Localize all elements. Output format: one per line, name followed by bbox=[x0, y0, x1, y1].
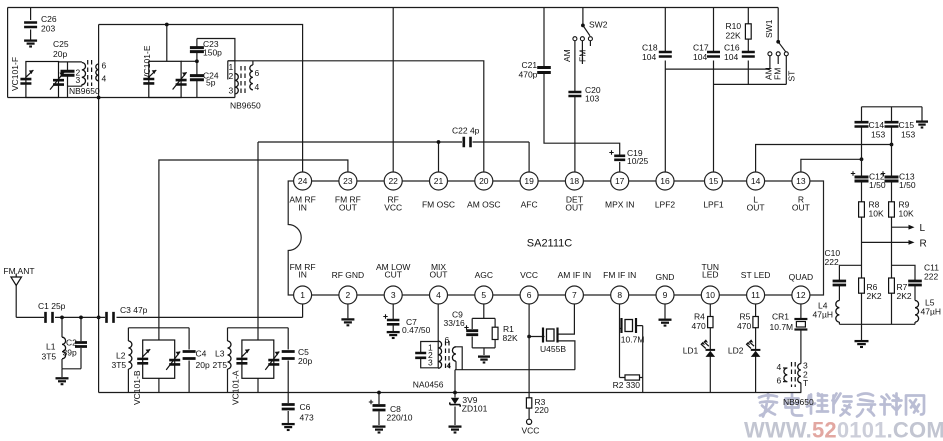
wire C9/R1 loop bbox=[472, 318, 495, 355]
resistor R2 bbox=[625, 375, 640, 380]
svg-text:L: L bbox=[920, 223, 926, 234]
svg-text:VC101-B: VC101-B bbox=[132, 370, 142, 405]
svg-text:WWW.520101.COM: WWW.520101.COM bbox=[744, 418, 943, 441]
svg-text:470: 470 bbox=[737, 321, 751, 331]
wire pin9 ground stub bbox=[664, 304, 666, 319]
capacitor C24 bbox=[190, 76, 204, 80]
wire tank2 top edge bbox=[228, 327, 289, 329]
wire tank1 left branch (L2) bbox=[127, 328, 129, 393]
pin 4 circle bbox=[430, 286, 448, 304]
ground below ZD101 bbox=[449, 427, 462, 433]
svg-text:OUT: OUT bbox=[339, 203, 357, 213]
wire C11/L5 branch bbox=[892, 265, 916, 324]
resistor R9 bbox=[889, 202, 895, 217]
pin 18 circle bbox=[565, 172, 583, 190]
ground below C6 bbox=[282, 424, 295, 430]
variable capacitor VC101-F box bbox=[26, 62, 59, 98]
svg-text:33/16: 33/16 bbox=[444, 318, 466, 328]
svg-text:18: 18 bbox=[570, 176, 580, 186]
svg-text:8: 8 bbox=[617, 290, 622, 300]
svg-text:C18: C18 bbox=[642, 43, 658, 53]
wire tank2 left branch (L3) bbox=[227, 328, 229, 393]
wire SW2 third contact stub bbox=[589, 41, 591, 46]
svg-text:6: 6 bbox=[527, 290, 532, 300]
wire SW2 FM stub bbox=[581, 41, 583, 64]
svg-text:17: 17 bbox=[615, 176, 625, 186]
svg-text:SA2111C: SA2111C bbox=[527, 238, 573, 250]
svg-text:LD1: LD1 bbox=[683, 346, 699, 356]
svg-text:6: 6 bbox=[445, 335, 450, 345]
svg-text:10.7M: 10.7M bbox=[621, 335, 645, 345]
pin 23 circle bbox=[339, 172, 357, 190]
capacitor C19 electrolytic bbox=[614, 156, 625, 160]
wire pin11 R5/LD2 branch bbox=[755, 304, 757, 393]
wire pin16 vertical with C18 bbox=[664, 8, 666, 173]
LED LD1 bbox=[706, 349, 716, 351]
svg-text:AM: AM bbox=[562, 49, 572, 62]
svg-text:LPF2: LPF2 bbox=[655, 200, 676, 210]
capacitor inside NA0456 bbox=[415, 353, 426, 358]
capacitor C9 electrolytic bbox=[466, 331, 478, 335]
wire pin13 R OUT to left chain bbox=[801, 159, 862, 172]
svg-text:C17: C17 bbox=[693, 43, 709, 53]
svg-text:2: 2 bbox=[346, 290, 351, 300]
wire L output arrow bbox=[892, 226, 912, 228]
svg-text:VCC: VCC bbox=[384, 203, 402, 213]
capacitor C22 bbox=[464, 137, 471, 147]
wire pin22 RF VCC to rail bbox=[392, 8, 394, 173]
svg-text:FM: FM bbox=[773, 68, 783, 80]
wire left audio chain x=861.5 bbox=[861, 107, 863, 324]
svg-text:AGC: AGC bbox=[475, 270, 493, 280]
svg-text:3: 3 bbox=[229, 86, 234, 96]
LED LD2 bbox=[751, 349, 761, 351]
transformer T3 NB9650 right winding bbox=[798, 364, 801, 383]
svg-text:220: 220 bbox=[535, 405, 549, 415]
svg-text:L1: L1 bbox=[46, 342, 56, 352]
inductor L5 bbox=[915, 301, 919, 323]
svg-text:2K2: 2K2 bbox=[897, 291, 912, 301]
resistor R4 bbox=[708, 317, 713, 328]
svg-text:C21: C21 bbox=[522, 60, 538, 70]
wire pin14 L OUT to right chain bbox=[756, 145, 892, 173]
svg-text:R4: R4 bbox=[694, 312, 705, 322]
svg-text:47µH: 47µH bbox=[921, 307, 942, 317]
wire R3 to VCC terminal bbox=[527, 419, 532, 424]
svg-text:10: 10 bbox=[706, 290, 716, 300]
svg-text:LED: LED bbox=[702, 270, 719, 280]
wire pin15 vertical with C17 bbox=[713, 8, 715, 173]
svg-text:6: 6 bbox=[102, 61, 107, 71]
svg-text:FM OSC: FM OSC bbox=[422, 200, 455, 210]
ground below L1 bbox=[56, 378, 69, 384]
svg-text:3T5: 3T5 bbox=[112, 360, 127, 370]
svg-text:47µH: 47µH bbox=[813, 310, 834, 320]
wire U455B connections bbox=[529, 304, 575, 370]
pin 16 circle bbox=[656, 172, 674, 190]
svg-text:6: 6 bbox=[777, 376, 782, 386]
resistor R1 bbox=[492, 327, 498, 339]
wire de-emphasis top node + ground bbox=[862, 107, 923, 121]
variable capacitor VC101-A box bbox=[242, 340, 274, 378]
svg-text:473: 473 bbox=[300, 413, 314, 423]
svg-text:22K: 22K bbox=[726, 31, 741, 41]
svg-text:OUT: OUT bbox=[430, 270, 448, 280]
resistor R7 bbox=[889, 278, 895, 293]
inductor L4 bbox=[836, 301, 840, 323]
svg-text:VC101-E: VC101-E bbox=[142, 45, 152, 80]
resistor R3 bbox=[526, 398, 531, 408]
wire C23/C24 chain and T2 frame bbox=[197, 39, 235, 98]
svg-text:21: 21 bbox=[434, 176, 444, 186]
svg-text:20p: 20p bbox=[298, 356, 312, 366]
wire right audio chain x=891.5 bbox=[891, 107, 893, 324]
svg-text:NB9650: NB9650 bbox=[783, 397, 814, 407]
wire AM RF rail to pin24 bbox=[99, 25, 303, 173]
pin 1 circle bbox=[294, 286, 312, 304]
wire SW1 wiper drop bbox=[778, 8, 786, 53]
svg-text:3: 3 bbox=[391, 290, 396, 300]
svg-text:VC101-F: VC101-F bbox=[10, 57, 20, 91]
wire C21 branch rail to MPX line bbox=[544, 8, 620, 173]
wire antenna input line bbox=[16, 286, 302, 318]
capacitor C20 bbox=[568, 92, 581, 96]
wire NA0456 primary cap loop bbox=[421, 341, 439, 368]
antenna FM ANT bbox=[11, 274, 22, 286]
variable capacitor VC101-B box bbox=[143, 340, 175, 378]
wire pin1 stub bbox=[302, 304, 304, 317]
capacitor C7 electrolytic bbox=[387, 320, 400, 324]
wire VC101-E to C23/C24 junction bbox=[181, 60, 197, 62]
svg-text:220/10: 220/10 bbox=[387, 413, 413, 423]
svg-text:14: 14 bbox=[751, 176, 761, 186]
wire ground bus bbox=[99, 392, 802, 394]
ground below C7 bbox=[387, 332, 400, 338]
svg-text:MPX IN: MPX IN bbox=[605, 200, 634, 210]
svg-text:3: 3 bbox=[76, 75, 81, 85]
wire top VCC rail bbox=[8, 7, 779, 9]
pin 22 circle bbox=[384, 172, 402, 190]
pin 8 circle bbox=[611, 286, 629, 304]
transformer T3 left winding bbox=[784, 368, 787, 382]
wire AM OSC line y=60.8 to pin20 bbox=[228, 61, 484, 172]
capacitor C15 bbox=[885, 122, 899, 126]
wire C10/L4 branch bbox=[839, 265, 861, 324]
wire pin10 R4/LD1 branch bbox=[709, 304, 711, 393]
resistor R6 bbox=[859, 278, 865, 293]
svg-text:R: R bbox=[920, 239, 927, 250]
resistor R8 bbox=[859, 202, 865, 217]
transformer T1 right winding bbox=[96, 64, 99, 81]
svg-text:QUAD: QUAD bbox=[789, 272, 814, 282]
wire R output arrow bbox=[862, 241, 912, 243]
svg-text:C2: C2 bbox=[66, 338, 77, 348]
svg-text:2: 2 bbox=[229, 71, 234, 81]
svg-text:C6: C6 bbox=[300, 402, 311, 412]
svg-text:4: 4 bbox=[447, 361, 452, 371]
svg-text:10K: 10K bbox=[899, 209, 914, 219]
svg-text:FM ANT: FM ANT bbox=[3, 266, 34, 276]
svg-text:153: 153 bbox=[871, 130, 885, 140]
svg-text:L2: L2 bbox=[116, 351, 126, 361]
svg-text:470p: 470p bbox=[519, 70, 538, 80]
wire zener branch bbox=[454, 370, 456, 425]
svg-text:153: 153 bbox=[901, 130, 915, 140]
transformer T4 NA0456 primary winding bbox=[438, 341, 441, 368]
pin 12 circle bbox=[792, 286, 810, 304]
capacitor C6 bbox=[282, 405, 295, 410]
svg-text:222: 222 bbox=[825, 257, 839, 267]
svg-text:OUT: OUT bbox=[747, 203, 765, 213]
svg-text:NB9650: NB9650 bbox=[230, 101, 261, 111]
transformer T2 NB9650 left winding bbox=[235, 74, 238, 94]
pin 2 circle bbox=[339, 286, 357, 304]
svg-text:ST LED: ST LED bbox=[741, 270, 771, 280]
ground pin9 bbox=[659, 320, 672, 326]
pin 17 circle bbox=[611, 172, 629, 190]
pin 11 circle bbox=[747, 286, 765, 304]
svg-text:13: 13 bbox=[796, 176, 806, 186]
svg-text:OUT: OUT bbox=[792, 203, 810, 213]
wire pin23 FM RF OUT to tank VC101-B bbox=[159, 160, 348, 340]
svg-text:470: 470 bbox=[692, 321, 706, 331]
pin 9 circle bbox=[656, 286, 674, 304]
svg-text:OUT: OUT bbox=[565, 203, 583, 213]
wire pin12 CR1 to T3 bbox=[800, 304, 802, 393]
svg-text:10K: 10K bbox=[869, 209, 884, 219]
svg-text:NA0456: NA0456 bbox=[413, 380, 444, 390]
svg-text:VCC: VCC bbox=[520, 270, 538, 280]
wire left frame edge bbox=[7, 8, 9, 98]
capacitor C14 bbox=[855, 122, 869, 126]
capacitor C4 bbox=[183, 352, 196, 359]
svg-text:C14: C14 bbox=[869, 120, 885, 130]
svg-text:5p: 5p bbox=[206, 78, 216, 88]
svg-text:NB9650: NB9650 bbox=[69, 86, 100, 96]
svg-text:R5: R5 bbox=[740, 312, 751, 322]
capacitor C13 electrolytic bbox=[885, 177, 899, 181]
svg-text:VCC: VCC bbox=[522, 426, 540, 436]
wire SW2 AM line through C20 to pin18 bbox=[574, 41, 576, 172]
switch SW1 bbox=[768, 52, 772, 56]
svg-text:11: 11 bbox=[751, 290, 760, 300]
svg-text:SW1: SW1 bbox=[764, 19, 774, 38]
wire NA0456 secondary connections bbox=[455, 347, 575, 370]
svg-text:6: 6 bbox=[255, 68, 260, 78]
pin 24 circle bbox=[294, 172, 312, 190]
ground below C9/R1 bbox=[478, 357, 490, 363]
transformer T4 secondary winding bbox=[452, 347, 456, 361]
ground audio bottom bbox=[855, 341, 869, 347]
svg-text:C22 4p: C22 4p bbox=[452, 126, 480, 136]
svg-text:104: 104 bbox=[642, 52, 656, 62]
capacitor C1 bbox=[46, 312, 53, 323]
svg-text:U455B: U455B bbox=[540, 344, 566, 354]
pin 6 circle bbox=[520, 286, 538, 304]
svg-text:VC101-A: VC101-A bbox=[231, 370, 241, 405]
svg-text:C15: C15 bbox=[899, 120, 915, 130]
svg-text:20: 20 bbox=[479, 176, 489, 186]
capacitor C3 bbox=[107, 312, 114, 323]
svg-text:10.7M: 10.7M bbox=[770, 322, 794, 332]
svg-text:2K2: 2K2 bbox=[867, 291, 882, 301]
IC U1 SA2111C body bbox=[288, 181, 823, 295]
svg-text:3: 3 bbox=[428, 358, 433, 368]
capacitor C8 electrolytic bbox=[373, 406, 386, 411]
svg-text:ZD101: ZD101 bbox=[462, 404, 488, 414]
svg-text:82K: 82K bbox=[503, 333, 518, 343]
capacitor C25 bbox=[61, 71, 75, 75]
wire SW1-ST line to pin15 vertical bbox=[714, 56, 787, 85]
wire main left vertical x=98.6 bbox=[98, 25, 100, 393]
svg-text:CUT: CUT bbox=[384, 270, 401, 280]
node junction pin21/C22 line bbox=[437, 140, 441, 144]
ground top right bbox=[916, 122, 928, 128]
svg-text:2T5: 2T5 bbox=[213, 360, 228, 370]
ground pin2 bbox=[341, 319, 354, 325]
svg-text:16: 16 bbox=[660, 176, 670, 186]
pin 19 circle bbox=[520, 172, 538, 190]
svg-text:ST: ST bbox=[787, 71, 797, 82]
svg-text:103: 103 bbox=[585, 94, 599, 104]
svg-text:104: 104 bbox=[693, 52, 707, 62]
svg-text:IN: IN bbox=[298, 270, 307, 280]
capacitor C2 bbox=[75, 343, 87, 347]
svg-text:4: 4 bbox=[102, 74, 107, 84]
svg-text:C3 47p: C3 47p bbox=[120, 305, 148, 315]
variable capacitor VC101-E box bbox=[149, 61, 181, 97]
svg-text:C16: C16 bbox=[724, 43, 740, 53]
wire audio bottom node + ground stem bbox=[839, 324, 915, 340]
ceramic resonator CR1 bbox=[794, 319, 807, 330]
wire T1/C25 node bbox=[59, 62, 82, 98]
pin 20 circle bbox=[475, 172, 493, 190]
wire FM OSC / AFC line with C22 bbox=[258, 142, 529, 340]
pin 7 circle bbox=[565, 286, 583, 304]
pin 10 circle bbox=[701, 286, 719, 304]
svg-text:222: 222 bbox=[924, 272, 938, 282]
svg-text:AM IF IN: AM IF IN bbox=[558, 270, 592, 280]
svg-text:AM OSC: AM OSC bbox=[467, 200, 501, 210]
capacitor C5 bbox=[282, 352, 295, 359]
wire tank2 VC bottom stub bbox=[257, 378, 259, 392]
wire SW1 FM stub bbox=[777, 56, 779, 64]
wire R10/C16 branch bbox=[747, 8, 749, 85]
svg-text:15: 15 bbox=[709, 176, 719, 186]
transformer T1 core bbox=[87, 60, 89, 86]
inductor L3 bbox=[228, 341, 232, 369]
transformer T3 core bbox=[791, 362, 793, 387]
svg-text:19: 19 bbox=[524, 176, 534, 186]
svg-text:150p: 150p bbox=[203, 48, 222, 58]
capacitor C17 bbox=[707, 52, 720, 57]
wire pin2 ground stub bbox=[347, 304, 349, 318]
svg-text:RF GND: RF GND bbox=[332, 270, 365, 280]
svg-text:1/50: 1/50 bbox=[899, 180, 916, 190]
zener diode ZD101 bbox=[451, 398, 459, 404]
svg-text:FM IF IN: FM IF IN bbox=[603, 270, 636, 280]
wire pin3 C7 branch bbox=[392, 304, 394, 331]
svg-text:5: 5 bbox=[481, 290, 486, 300]
svg-text:39p: 39p bbox=[63, 348, 77, 358]
svg-text:0.47/50: 0.47/50 bbox=[402, 325, 431, 335]
wire C2 branch bbox=[62, 317, 81, 377]
resistor R5 bbox=[753, 317, 758, 328]
svg-text:FM: FM bbox=[578, 50, 588, 62]
svg-text:7: 7 bbox=[572, 290, 577, 300]
wire C6 branch below bus bbox=[287, 393, 289, 424]
capacitor C26 bbox=[24, 23, 37, 28]
pin 13 circle bbox=[792, 172, 810, 190]
svg-text:9: 9 bbox=[663, 290, 668, 300]
svg-text:T: T bbox=[803, 378, 808, 388]
svg-text:CR1: CR1 bbox=[772, 312, 789, 322]
pin 14 circle bbox=[747, 172, 765, 190]
svg-text:LD2: LD2 bbox=[728, 346, 744, 356]
svg-text:R10: R10 bbox=[726, 21, 742, 31]
capacitor C21 bbox=[537, 68, 551, 73]
watermark chinese characters bbox=[759, 394, 777, 417]
pin 15 circle bbox=[705, 172, 723, 190]
svg-text:203: 203 bbox=[41, 24, 55, 34]
capacitor C12 electrolytic bbox=[855, 177, 869, 181]
wire frame bottom y=97.5 bbox=[8, 97, 235, 99]
svg-text:SW2: SW2 bbox=[589, 20, 608, 30]
svg-text:4: 4 bbox=[255, 82, 260, 92]
svg-text:IN: IN bbox=[298, 203, 307, 213]
wire tank2 right branch (C5) bbox=[287, 328, 289, 393]
ground below C8 bbox=[373, 427, 386, 433]
ground below C26 bbox=[24, 41, 37, 47]
pin 5 circle bbox=[475, 286, 493, 304]
wire pin5 AGC stub bbox=[483, 304, 485, 318]
wire L1 branch bbox=[61, 317, 63, 368]
svg-text:LPF1: LPF1 bbox=[703, 200, 724, 210]
svg-text:10/25: 10/25 bbox=[627, 156, 649, 166]
transformer T2 core bbox=[240, 66, 242, 95]
transformer T2 right winding bbox=[252, 61, 254, 65]
wire C8 branch bbox=[378, 393, 380, 426]
svg-text:L3: L3 bbox=[215, 349, 225, 359]
wire SW1-AM line to pin16 vertical bbox=[665, 56, 770, 69]
svg-text:4: 4 bbox=[436, 290, 441, 300]
svg-text:C4: C4 bbox=[196, 349, 207, 359]
svg-text:104: 104 bbox=[724, 52, 738, 62]
svg-text:GND: GND bbox=[656, 272, 675, 282]
transformer T1 NB9650 left winding bbox=[82, 63, 86, 85]
inductor L2 bbox=[128, 341, 132, 369]
capacitor C18 bbox=[659, 52, 672, 57]
transformer T4 core bbox=[445, 341, 447, 368]
inductor L1 bbox=[62, 337, 66, 359]
svg-text:20p: 20p bbox=[53, 49, 67, 59]
capacitor C23 bbox=[190, 48, 204, 52]
svg-text:22: 22 bbox=[388, 176, 398, 186]
svg-text:1: 1 bbox=[300, 290, 305, 300]
svg-text:1/50: 1/50 bbox=[869, 180, 886, 190]
ceramic filter U455B bbox=[543, 328, 558, 343]
wire SW2 wiper from rail bbox=[583, 8, 590, 36]
resistor R10 bbox=[745, 24, 751, 39]
wire pin4 to NA0456 primary bbox=[437, 304, 439, 341]
capacitor C10 bbox=[833, 281, 847, 285]
wire tank1 VC bottom stub bbox=[158, 378, 160, 392]
wire pin6 VCC vertical to R3 bbox=[528, 304, 530, 419]
wire tank1 right branch (C4) bbox=[188, 328, 190, 393]
svg-text:AFC: AFC bbox=[521, 200, 538, 210]
svg-text:12: 12 bbox=[796, 290, 806, 300]
svg-text:C26: C26 bbox=[41, 14, 57, 24]
